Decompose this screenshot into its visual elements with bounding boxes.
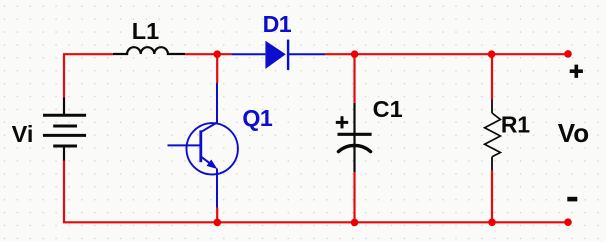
svg-text:Vi: Vi [12, 121, 34, 147]
resistor R1 [485, 100, 501, 171]
node: junction C1/R1 top [488, 50, 496, 58]
wire: left rail from battery top to inductor [64, 54, 113, 98]
wire: resistor bottom (red) [491, 170, 493, 222]
wire: capacitor top (red) [353, 54, 355, 103]
node: junction C1 bottom [351, 219, 359, 227]
wire: resistor top (red) [491, 54, 493, 99]
node: junction R1 bottom [488, 219, 496, 227]
node: junction emitter/bottom rail [214, 219, 222, 227]
output - polarity mark [567, 197, 577, 202]
wire: blue anode wire [231, 53, 265, 55]
svg-text:R1: R1 [501, 112, 530, 138]
node: output - terminal [564, 218, 572, 226]
svg-text:C1: C1 [373, 96, 403, 122]
wire: blue cathode wire [288, 53, 325, 55]
transistor Q1 [168, 83, 238, 208]
svg-text:D1: D1 [263, 11, 292, 37]
wire: bottom rail [64, 160, 568, 222]
node: output + terminal [564, 50, 572, 58]
inductor L1 [113, 47, 185, 54]
svg-text:Vo: Vo [558, 118, 589, 148]
svg-text:L1: L1 [132, 18, 159, 44]
wire: top rail diode to output (red) [325, 53, 568, 55]
wire: emitter drop (red) [216, 208, 218, 223]
diode D1 [265, 40, 288, 70]
node: junction D1/C1 [351, 50, 359, 58]
wire: capacitor bottom (red) [353, 172, 355, 222]
battery Vi [43, 98, 86, 161]
wire: top rail inductor to diode (red part) [185, 53, 231, 55]
output + polarity mark [570, 65, 583, 78]
capacitor C1 [336, 103, 372, 172]
wire: collector drop (red) [216, 54, 218, 83]
svg-text:Q1: Q1 [242, 105, 272, 131]
node: junction L1/D1/Q1 collector [213, 50, 221, 58]
